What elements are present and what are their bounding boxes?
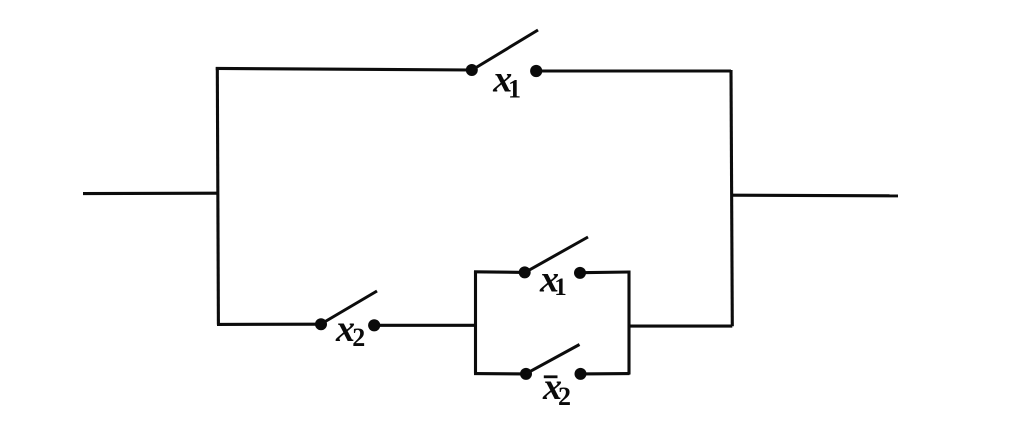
switch x1 top contacts and blade [466, 30, 543, 77]
wire right vertical [731, 70, 732, 326]
wire top branch right segment [536, 69, 731, 72]
switch x2 contacts and blade [315, 291, 380, 331]
label x2 [335, 308, 365, 352]
wire top branch left segment [216, 68, 472, 70]
wire parallel box bottom-right segment [581, 372, 630, 375]
svg-text:1: 1 [508, 74, 521, 103]
label x-bar-2 with overbar [542, 366, 571, 411]
wire parallel box right vertical [627, 271, 630, 375]
wire input lead [83, 192, 218, 196]
wire parallel box to right vertical [628, 325, 732, 328]
label x1 inner [539, 259, 567, 301]
wire bottom branch left segment [217, 323, 321, 326]
label x1 top [492, 59, 521, 104]
switch x1 inner contacts and blade [519, 237, 588, 279]
svg-text:2: 2 [352, 323, 365, 352]
wire output lead [732, 194, 899, 198]
wire parallel box top-left segment [474, 270, 525, 274]
svg-text:1: 1 [554, 274, 567, 301]
wire parallel box top-right segment [580, 270, 630, 274]
wire parallel box bottom-left segment [474, 372, 526, 375]
switch x-bar-2 contacts and blade [520, 345, 587, 380]
wire from switch x2 to parallel box [374, 324, 476, 327]
wire parallel box left vertical [474, 271, 477, 374]
svg-text:2: 2 [558, 382, 571, 411]
wire left vertical [217, 67, 218, 325]
